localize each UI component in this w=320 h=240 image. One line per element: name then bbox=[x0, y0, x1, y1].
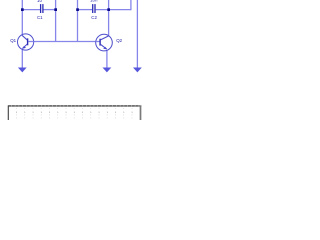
wire C2 right to elbow bbox=[96, 9, 132, 11]
ground arrow under Q1 bbox=[18, 68, 27, 73]
table top border underlay bbox=[8, 105, 141, 107]
wire collector Q2 vertical bbox=[108, 0, 110, 36]
svg-text:Q2: Q2 bbox=[116, 38, 122, 43]
wire right vertical to arrow bbox=[136, 0, 138, 68]
table row dotted line bbox=[16, 112, 140, 114]
wire emitter Q2 down bbox=[106, 50, 108, 68]
table panel bbox=[8, 105, 141, 120]
wire node C to C2 left bbox=[78, 9, 93, 11]
table left border bbox=[7, 105, 9, 120]
capacitor C1 bbox=[41, 4, 43, 13]
svg-text:C2: C2 bbox=[91, 15, 97, 20]
wire emitter Q1 down bbox=[21, 50, 23, 69]
wire node B vertical bbox=[55, 0, 57, 42]
junction dot node B (55.6,9.6) bbox=[54, 8, 57, 11]
junction dot node A (22.3,9.6) bbox=[21, 8, 24, 11]
junction dot node D (108.6,9.6) bbox=[107, 8, 110, 11]
transistor Q1 (mirrored NPN) bbox=[18, 34, 34, 50]
table top dashed border bbox=[8, 105, 141, 107]
wire C1 right to node B bbox=[43, 9, 55, 11]
junction dot node C (77.5,9.6) bbox=[76, 8, 79, 11]
table column lines bbox=[17, 108, 133, 120]
svg-text:10n: 10n bbox=[90, 0, 98, 2]
ground arrow right bbox=[133, 68, 142, 73]
wire top rail left segment bbox=[22, 9, 40, 11]
wire collector Q1 vertical bbox=[21, 0, 23, 36]
wire elbow up bbox=[130, 0, 132, 10]
svg-text:C1: C1 bbox=[37, 15, 43, 20]
svg-text:Q1: Q1 bbox=[10, 38, 16, 43]
capacitor C2 bbox=[93, 4, 95, 13]
ground arrow under Q2 bbox=[103, 68, 112, 73]
wire base rail bbox=[34, 41, 96, 43]
transistor Q2 (NPN) bbox=[96, 34, 113, 51]
svg-text:10: 10 bbox=[37, 0, 42, 3]
wire node C vertical bbox=[77, 0, 79, 42]
table right border bbox=[140, 105, 142, 120]
